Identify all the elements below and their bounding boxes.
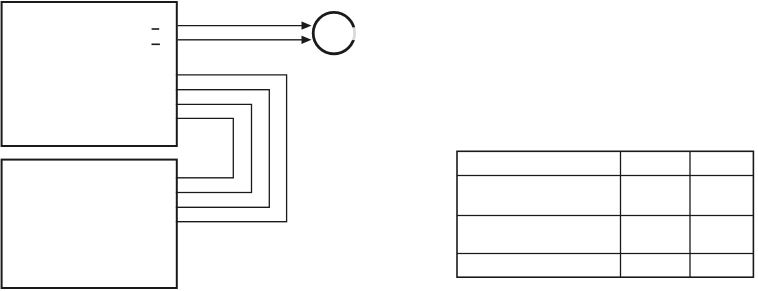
dash label 2 (inside B1) [152,44,160,46]
box B2 (lower-left process block) [2,160,177,288]
table row divider 1 [457,175,753,177]
nested loop L1 (outermost bracket) [176,75,287,222]
dash label 1 (inside B1) [152,28,160,30]
arrow A1 (B1 to circle, upper) [178,21,312,29]
circle node S (state circle) [313,12,358,53]
nested loop L4 (innermost bracket) [176,118,234,177]
table row divider 3 [457,253,753,255]
arrow A2 (B1 to circle, lower) [178,36,312,44]
table column divider 1 [620,151,622,277]
nested loop L2 [176,90,269,208]
table outer frame [457,151,753,277]
table row divider 2 [457,215,753,217]
table column divider 2 [689,151,691,277]
nested loop L3 [176,104,252,192]
box B1 (upper-left process block) [2,2,177,146]
